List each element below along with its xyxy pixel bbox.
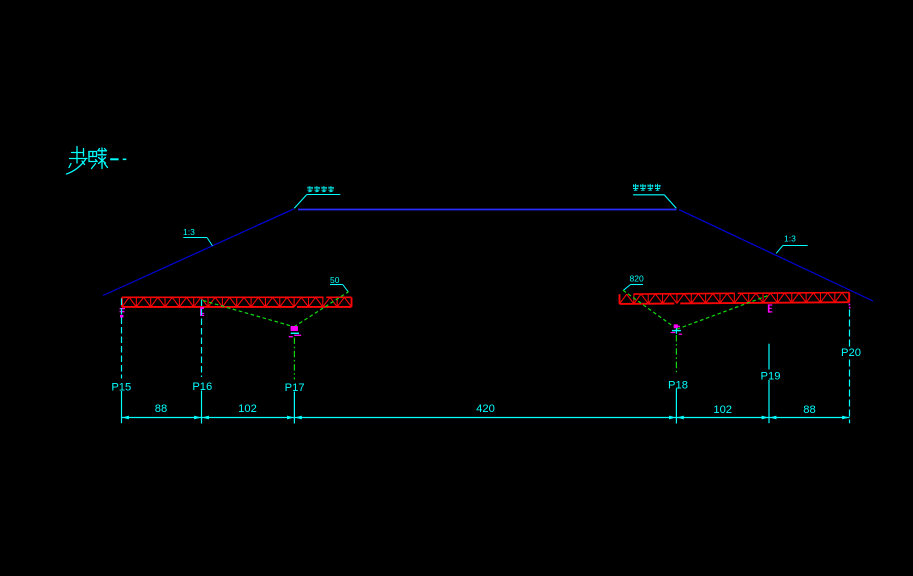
svg-text:P15: P15 [111, 381, 131, 393]
bearing marks P15 [120, 308, 125, 310]
svg-text:820: 820 [630, 274, 644, 284]
pier P15 centerline [121, 299, 123, 379]
svg-text:P17: P17 [285, 382, 305, 394]
bearing mark P20 [848, 304, 850, 306]
embankment slope line right [679, 210, 873, 301]
svg-text:102: 102 [713, 404, 732, 416]
dimension arrowheads [122, 416, 129, 420]
dimension line [122, 417, 850, 419]
erection truss girder right [620, 293, 850, 304]
label text right apex (CJK) [633, 184, 639, 191]
leader left apex [294, 195, 307, 209]
temporary pier centerline P18 [675, 335, 677, 373]
abutment label P20 [841, 347, 862, 358]
temporary support block P18 [671, 324, 682, 334]
pier label P19 [762, 370, 780, 381]
bearing mark E at P16 [200, 307, 204, 316]
svg-text:420: 420 [476, 403, 495, 415]
suspension cable left truss back [203, 301, 293, 327]
suspension cable right truss back [677, 295, 769, 329]
svg-text:50: 50 [330, 275, 340, 285]
svg-text:88: 88 [803, 404, 815, 416]
svg-text:P18: P18 [668, 379, 688, 391]
title dash 2 [123, 158, 127, 160]
bridge deck design line [298, 209, 677, 211]
title step-one (CJK strokes) [67, 147, 108, 175]
embankment slope line left [103, 209, 294, 296]
temporary support block P17 [289, 326, 302, 337]
pier P19 centerline [768, 344, 770, 424]
label text left apex (CJK) [308, 186, 313, 192]
pier P17 centerline lower [293, 392, 295, 424]
svg-text:1:3: 1:3 [183, 227, 195, 237]
svg-text:P19: P19 [761, 370, 781, 382]
suspension cable left truss front [294, 292, 349, 327]
abutment P20 line [849, 310, 851, 424]
bearing mark E at P19 [769, 304, 773, 312]
svg-text:P16: P16 [192, 381, 212, 393]
svg-text:1:3: 1:3 [784, 234, 796, 244]
erection truss girder left [122, 297, 352, 307]
svg-text:88: 88 [155, 403, 167, 415]
svg-text:P20: P20 [841, 347, 861, 359]
temporary pier centerline P17 [293, 338, 295, 380]
suspension cable right truss front [623, 290, 674, 326]
svg-text:102: 102 [238, 403, 257, 415]
leader right apex [664, 195, 676, 209]
pier P16 centerline [201, 300, 203, 378]
title dash 1 [110, 158, 118, 160]
pier P18 centerline lower [675, 389, 677, 424]
